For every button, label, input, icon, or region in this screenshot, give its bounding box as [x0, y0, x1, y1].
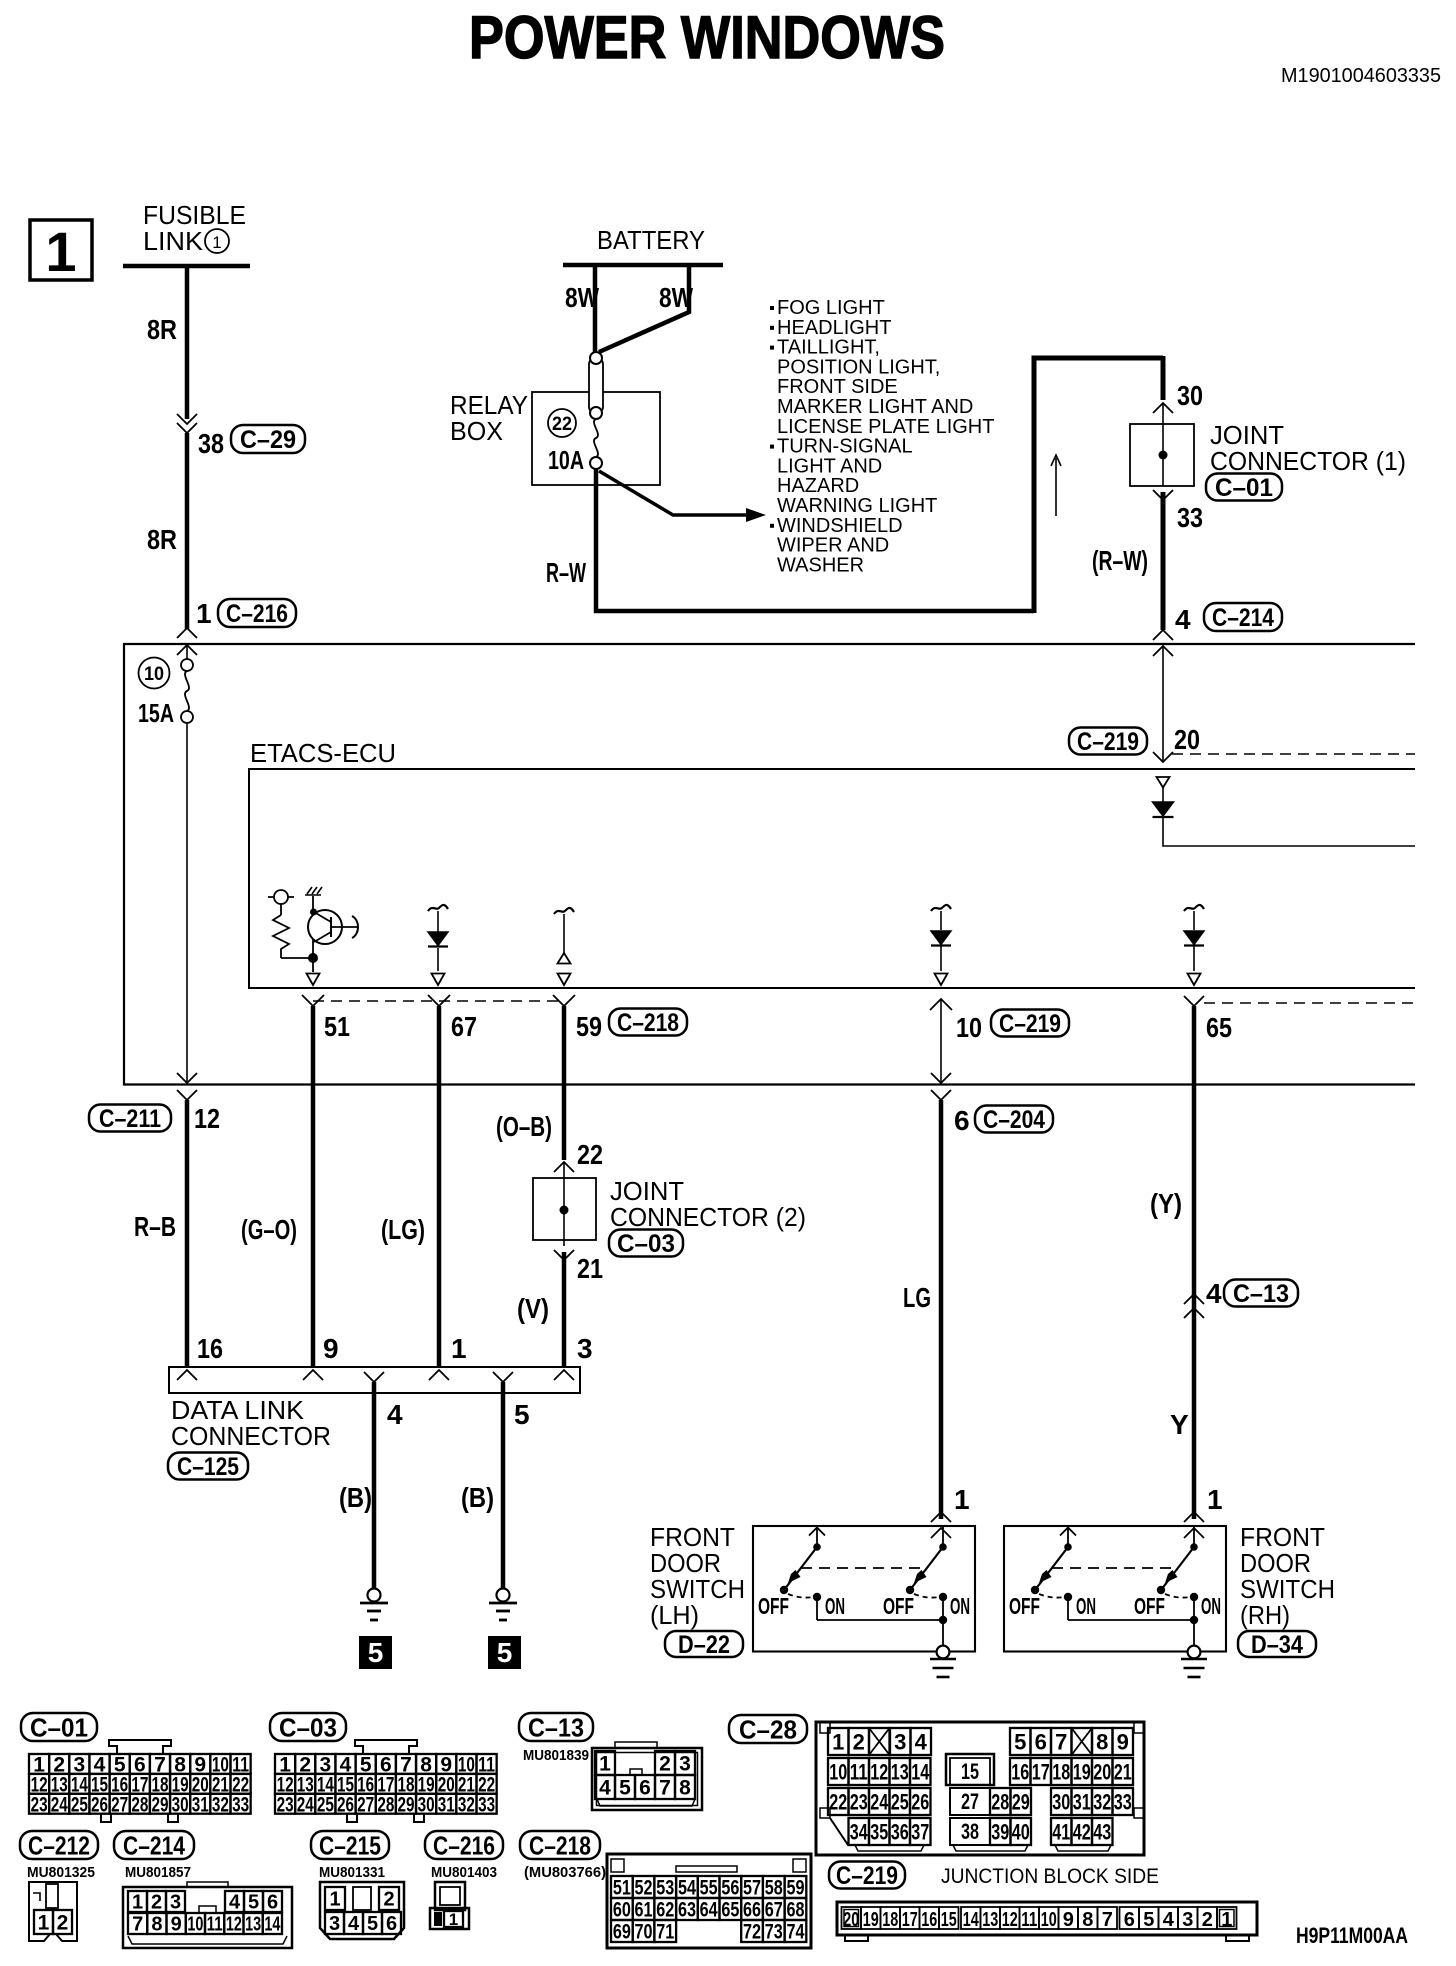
svg-text:(G–O): (G–O) [241, 1214, 297, 1245]
connector C-218 refbox [609, 1009, 687, 1036]
svg-text:23: 23 [850, 1789, 868, 1814]
svg-text:FOG LIGHT: FOG LIGHT [777, 297, 885, 319]
battery wire 8W left [593, 265, 598, 352]
svg-text:14: 14 [264, 1914, 281, 1936]
svg-text:C–214: C–214 [1212, 604, 1274, 632]
svg-text:C–28: C–28 [739, 1714, 797, 1744]
svg-text:8R: 8R [147, 524, 177, 555]
svg-text:OFF: OFF [1009, 1593, 1040, 1619]
svg-text:11: 11 [850, 1759, 868, 1784]
svg-text:52: 52 [635, 1877, 653, 1900]
svg-text:9: 9 [171, 1914, 182, 1936]
svg-text:4: 4 [1206, 1278, 1222, 1309]
svg-text:30: 30 [1052, 1789, 1070, 1814]
svg-text:3: 3 [329, 1913, 340, 1935]
front door switch RH box [1004, 1526, 1226, 1652]
svg-text:25: 25 [317, 1793, 334, 1816]
svg-text:LIGHT AND: LIGHT AND [777, 455, 882, 477]
svg-text:22: 22 [552, 414, 572, 435]
svg-text:POWER WINDOWS: POWER WINDOWS [469, 4, 945, 71]
svg-text:63: 63 [678, 1899, 696, 1922]
svg-text:16: 16 [1011, 1759, 1029, 1784]
svg-text:MU801325: MU801325 [27, 1864, 95, 1881]
svg-text:1: 1 [449, 1910, 458, 1929]
svg-text:2: 2 [1202, 1909, 1213, 1931]
svg-text:12: 12 [226, 1914, 242, 1936]
svg-text:20: 20 [1174, 724, 1200, 755]
svg-text:64: 64 [700, 1899, 718, 1922]
connector C-214 refbox [1204, 603, 1282, 631]
svg-text:38: 38 [198, 428, 224, 459]
svg-text:56: 56 [721, 1877, 739, 1900]
svg-text:5: 5 [248, 1892, 259, 1914]
wire LG to door switch LH [939, 1100, 944, 1519]
svg-text:16: 16 [197, 1333, 223, 1364]
svg-text:6: 6 [639, 1777, 651, 1800]
svg-text:35: 35 [870, 1819, 888, 1844]
svg-text:3: 3 [679, 1753, 691, 1776]
connector C-216 refbox [218, 599, 296, 627]
svg-text:BATTERY: BATTERY [597, 225, 705, 255]
wire O-B upper [562, 1006, 567, 1160]
svg-text:33: 33 [1177, 502, 1203, 533]
svg-text:C–212: C–212 [28, 1830, 90, 1860]
connector C-219 refbox bottom [829, 1862, 905, 1889]
svg-text:17: 17 [1032, 1759, 1050, 1784]
svg-text:51: 51 [613, 1877, 631, 1900]
chevron pair at junction block top right [1153, 630, 1173, 640]
connector C-215 pinout [320, 1882, 404, 1939]
connector C-212 refbox [20, 1831, 98, 1859]
svg-text:10A: 10A [548, 445, 584, 475]
svg-text:ON: ON [950, 1593, 970, 1619]
battery wire 8W right [599, 265, 689, 352]
svg-text:8: 8 [1082, 1909, 1093, 1931]
relay box [532, 392, 660, 485]
svg-text:58: 58 [765, 1877, 783, 1900]
connector C-01 pinout [109, 1740, 171, 1754]
svg-text:D–22: D–22 [678, 1631, 730, 1659]
battery bus bar [563, 263, 723, 268]
svg-text:WASHER: WASHER [777, 554, 864, 576]
svg-text:29: 29 [1012, 1789, 1030, 1814]
svg-text:30: 30 [418, 1793, 435, 1816]
svg-text:HAZARD: HAZARD [777, 475, 859, 497]
connector C-218 refbox2 [520, 1831, 600, 1859]
svg-text:H9P11M00AA: H9P11M00AA [1296, 1923, 1408, 1948]
svg-text:65: 65 [721, 1899, 739, 1922]
svg-text:23: 23 [31, 1793, 48, 1816]
connector D-34 refbox [1238, 1631, 1316, 1657]
svg-text:31: 31 [1073, 1789, 1091, 1814]
connector C-216 pinout [435, 1882, 465, 1910]
svg-text:BOX: BOX [450, 416, 503, 446]
svg-text:20: 20 [1093, 1759, 1111, 1784]
svg-text:1: 1 [451, 1333, 467, 1364]
svg-text:28: 28 [131, 1793, 148, 1816]
svg-text:4: 4 [348, 1913, 360, 1935]
svg-text:27: 27 [357, 1793, 374, 1816]
svg-text:11: 11 [1021, 1909, 1037, 1931]
svg-text:(R–W): (R–W) [1092, 545, 1148, 576]
svg-text:5: 5 [619, 1777, 631, 1800]
svg-text:C–13: C–13 [1233, 1280, 1289, 1308]
svg-text:7: 7 [659, 1777, 671, 1800]
svg-text:31: 31 [192, 1793, 209, 1816]
connector C-28 pinout [816, 1722, 1144, 1855]
ground symbol right [497, 1589, 510, 1602]
svg-text:33: 33 [1114, 1789, 1132, 1814]
svg-text:C–215: C–215 [319, 1830, 381, 1860]
wire 8R lower [185, 433, 190, 629]
svg-text:R–W: R–W [546, 557, 586, 588]
diode at pin 65 inside ETACS [1184, 905, 1204, 911]
svg-text:3: 3 [894, 1729, 906, 1754]
fuse 10 15A [186, 644, 188, 660]
svg-text:6: 6 [954, 1105, 970, 1136]
svg-text:2: 2 [151, 1892, 162, 1914]
svg-text:(LH): (LH) [650, 1600, 699, 1630]
wire LG to DLC [437, 1006, 442, 1367]
connector C-01 refbox bottom [21, 1713, 97, 1741]
svg-text:TURN-SIGNAL: TURN-SIGNAL [777, 436, 913, 458]
svg-text:C–211: C–211 [99, 1105, 161, 1133]
svg-text:13: 13 [891, 1759, 909, 1784]
svg-text:18: 18 [882, 1909, 898, 1931]
connector D-22 refbox [665, 1631, 743, 1657]
svg-text:1: 1 [196, 598, 212, 629]
svg-text:1: 1 [212, 233, 221, 252]
svg-text:10: 10 [1041, 1909, 1057, 1931]
svg-text:M1901004603335: M1901004603335 [1281, 65, 1441, 87]
C-28 row 3 cells [828, 1788, 849, 1815]
transistor circuit inside ETACS [268, 896, 294, 898]
connector C-216 refbox2 [425, 1831, 503, 1859]
svg-text:FRONT SIDE: FRONT SIDE [777, 376, 898, 398]
svg-text:C–216: C–216 [433, 1830, 495, 1860]
svg-text:55: 55 [700, 1877, 718, 1900]
ground symbol left [368, 1589, 381, 1602]
C-28 bottom left diagonal [830, 1818, 848, 1845]
page reference 5 right [488, 1636, 521, 1669]
svg-text:POSITION LIGHT,: POSITION LIGHT, [777, 356, 940, 378]
svg-text:29: 29 [397, 1793, 414, 1816]
svg-text:32: 32 [1093, 1789, 1111, 1814]
svg-text:1: 1 [1221, 1909, 1232, 1931]
svg-text:LINK: LINK [143, 226, 204, 256]
svg-text:12: 12 [194, 1103, 220, 1134]
svg-text:10: 10 [956, 1012, 982, 1043]
connector C-13 refbox bottom [519, 1713, 593, 1741]
svg-text:32: 32 [458, 1793, 475, 1816]
svg-text:67: 67 [765, 1899, 783, 1922]
svg-text:39: 39 [991, 1819, 1009, 1844]
svg-text:1: 1 [329, 1889, 340, 1911]
svg-text:(MU803766): (MU803766) [524, 1864, 606, 1881]
diode at pin 10 inside ETACS [931, 905, 951, 911]
connector C-214 pinout [123, 1887, 292, 1948]
svg-text:8W: 8W [659, 282, 693, 313]
svg-text:C–13: C–13 [528, 1712, 584, 1742]
svg-text:31: 31 [438, 1793, 455, 1816]
svg-text:6: 6 [1035, 1729, 1047, 1754]
wire (R-W) down [1161, 492, 1166, 630]
svg-text:6: 6 [267, 1892, 278, 1914]
svg-text:ON: ON [1201, 1593, 1221, 1619]
fusible link capsule [589, 358, 603, 413]
connector symbol at pin 59 inside ETACS [554, 908, 574, 914]
svg-text:51: 51 [324, 1011, 350, 1042]
svg-text:21: 21 [577, 1253, 603, 1284]
svg-text:9: 9 [1063, 1909, 1074, 1931]
joint connector 2 box [533, 1178, 596, 1240]
svg-text:D–34: D–34 [1251, 1631, 1303, 1659]
svg-text:74: 74 [786, 1921, 804, 1944]
svg-text:5: 5 [1143, 1909, 1154, 1931]
front door switch LH box [753, 1526, 975, 1652]
dashed line under ETACS pins [313, 1000, 564, 1002]
ground wire B left [372, 1382, 377, 1589]
svg-text:24: 24 [870, 1789, 889, 1814]
svg-text:OFF: OFF [758, 1593, 789, 1619]
diode at pin 20 inside ETACS [1157, 777, 1170, 788]
svg-text:70: 70 [635, 1921, 653, 1944]
svg-text:Y: Y [1170, 1409, 1189, 1440]
connector C-03 refbox [609, 1230, 683, 1257]
connector C-218 pinout [607, 1854, 811, 1948]
svg-text:59: 59 [576, 1011, 602, 1042]
svg-text:MU801839: MU801839 [523, 1747, 589, 1764]
data link connector bar [169, 1367, 580, 1393]
connector C-219 refbox mid [991, 1010, 1069, 1037]
chevron at C-219 pin 20 [1153, 752, 1173, 762]
svg-text:CONNECTOR (1): CONNECTOR (1) [1210, 446, 1406, 476]
svg-text:1: 1 [1207, 1484, 1223, 1515]
svg-text:MU801331: MU801331 [319, 1864, 385, 1881]
connector C-211 refbox [89, 1105, 171, 1132]
svg-text:22: 22 [829, 1789, 847, 1814]
svg-text:1: 1 [599, 1753, 611, 1776]
svg-text:68: 68 [786, 1899, 804, 1922]
connector C-03 pinout [355, 1740, 417, 1754]
svg-text:30: 30 [172, 1793, 189, 1816]
svg-text:71: 71 [656, 1921, 674, 1944]
chevron above joint connector 1 [1153, 403, 1173, 413]
svg-text:21: 21 [1114, 1759, 1132, 1784]
page reference 5 left [359, 1636, 392, 1669]
svg-text:57: 57 [743, 1877, 761, 1900]
svg-text:6: 6 [1124, 1909, 1135, 1931]
svg-text:17: 17 [902, 1909, 918, 1931]
svg-text:25: 25 [71, 1793, 88, 1816]
svg-text:23: 23 [277, 1793, 294, 1816]
svg-text:15: 15 [941, 1909, 957, 1931]
svg-text:33: 33 [478, 1793, 495, 1816]
wire R-B [185, 1100, 190, 1367]
svg-text:8R: 8R [147, 314, 177, 345]
svg-text:16: 16 [921, 1909, 937, 1931]
svg-text:59: 59 [786, 1877, 804, 1900]
svg-text:MARKER LIGHT AND: MARKER LIGHT AND [777, 396, 973, 418]
svg-text:(O–B): (O–B) [496, 1111, 552, 1142]
svg-text:18: 18 [1052, 1759, 1070, 1784]
connector C-28 refbox bottom [729, 1715, 807, 1743]
svg-text:24: 24 [51, 1793, 68, 1816]
svg-text:34: 34 [850, 1819, 869, 1844]
connector C-219 refbox top [1069, 728, 1147, 755]
dashed line at C-219 20 [1172, 753, 1415, 755]
joint connector 1 box [1130, 424, 1194, 486]
svg-text:29: 29 [151, 1793, 168, 1816]
svg-text:25: 25 [891, 1789, 909, 1814]
chevrons into switch RH [1184, 1512, 1204, 1522]
svg-text:C–214: C–214 [123, 1830, 185, 1860]
svg-text:C–219: C–219 [999, 1010, 1061, 1038]
svg-text:WIPER AND: WIPER AND [777, 535, 889, 557]
svg-text:14: 14 [963, 1909, 980, 1931]
svg-text:28: 28 [377, 1793, 394, 1816]
svg-text:54: 54 [678, 1877, 696, 1900]
svg-text:1: 1 [45, 220, 76, 283]
svg-text:7: 7 [132, 1914, 143, 1936]
svg-text:11: 11 [207, 1914, 223, 1936]
svg-text:5: 5 [368, 1637, 384, 1668]
chevrons into switch LH [931, 1512, 951, 1522]
svg-text:JUNCTION BLOCK SIDE: JUNCTION BLOCK SIDE [941, 1865, 1159, 1888]
svg-text:C–125: C–125 [177, 1453, 239, 1481]
svg-text:2: 2 [659, 1753, 671, 1776]
svg-text:9: 9 [323, 1333, 339, 1364]
chevron below joint connector 2 [554, 1250, 574, 1260]
svg-text:4: 4 [229, 1892, 241, 1914]
svg-text:WARNING LIGHT: WARNING LIGHT [777, 495, 937, 517]
arrow to load list [599, 471, 746, 515]
connector C-214 refbox2 [114, 1831, 194, 1859]
fusible link bus bar [123, 264, 250, 269]
svg-text:ON: ON [825, 1593, 845, 1619]
svg-text:12: 12 [1002, 1909, 1018, 1931]
svg-text:1: 1 [954, 1484, 970, 1515]
svg-text:C–29: C–29 [240, 426, 296, 454]
svg-text:38: 38 [961, 1819, 979, 1844]
svg-text:(B): (B) [339, 1482, 372, 1513]
svg-text:22: 22 [577, 1139, 603, 1170]
connector C-29 [231, 425, 305, 453]
svg-text:(Y): (Y) [1150, 1188, 1182, 1219]
connector C-218 pins 51 67 59 [302, 995, 324, 1006]
ETACS-ECU box [249, 769, 1415, 988]
svg-text:67: 67 [451, 1011, 477, 1042]
svg-text:(RH): (RH) [1240, 1600, 1290, 1630]
svg-text:19: 19 [1073, 1759, 1091, 1784]
connector C-215 refbox [311, 1831, 389, 1859]
page reference box 1 [30, 220, 92, 280]
svg-text:37: 37 [911, 1819, 929, 1844]
svg-text:4: 4 [387, 1399, 403, 1430]
chevron above joint connector 2 [554, 1162, 574, 1172]
svg-text:8: 8 [1096, 1729, 1108, 1754]
svg-text:13: 13 [982, 1909, 998, 1931]
thin up arrow [1055, 458, 1057, 516]
svg-text:2: 2 [57, 1912, 69, 1935]
svg-text:36: 36 [891, 1819, 909, 1844]
svg-text:10: 10 [144, 664, 164, 685]
svg-text:26: 26 [911, 1789, 929, 1814]
chevron below junction block left [177, 1090, 197, 1100]
connector C-125 refbox [168, 1453, 248, 1480]
svg-text:HEADLIGHT: HEADLIGHT [777, 317, 891, 339]
svg-text:32: 32 [212, 1793, 229, 1816]
wire 65 start [1184, 996, 1204, 1006]
svg-text:3: 3 [1182, 1909, 1193, 1931]
chevron below joint connector 1 [1153, 490, 1173, 500]
svg-text:ETACS-ECU: ETACS-ECU [250, 738, 396, 768]
svg-text:5: 5 [497, 1637, 513, 1668]
svg-text:6: 6 [386, 1913, 397, 1935]
svg-text:72: 72 [743, 1921, 761, 1944]
svg-text:1: 1 [132, 1892, 143, 1914]
svg-text:C–204: C–204 [983, 1106, 1045, 1134]
chevron into junction block [177, 628, 197, 638]
connector C-13 pinout [592, 1748, 702, 1810]
svg-text:(V): (V) [517, 1293, 549, 1324]
chevrons at C-13 crossing [1184, 1294, 1204, 1304]
svg-text:R–B: R–B [134, 1211, 176, 1242]
wire 8R upper [185, 266, 190, 419]
svg-text:C–219: C–219 [836, 1862, 898, 1890]
dashed line at 65 [1204, 1002, 1415, 1004]
svg-text:C–218: C–218 [529, 1830, 591, 1860]
svg-text:MU801857: MU801857 [125, 1864, 191, 1881]
svg-text:28: 28 [991, 1789, 1009, 1814]
svg-text:1: 1 [38, 1912, 50, 1935]
svg-text:LG: LG [903, 1282, 931, 1313]
C-28 row 4 cells [849, 1818, 870, 1845]
wire R-W run to joint connector [596, 469, 1034, 611]
wire G-O [311, 1006, 316, 1367]
svg-text:24: 24 [297, 1793, 314, 1816]
svg-text:5: 5 [514, 1399, 530, 1430]
svg-text:41: 41 [1052, 1819, 1070, 1844]
svg-text:CONNECTOR: CONNECTOR [171, 1421, 331, 1451]
svg-text:4: 4 [1163, 1909, 1175, 1931]
svg-text:4: 4 [915, 1729, 928, 1754]
svg-text:53: 53 [656, 1877, 674, 1900]
C-28 row 1 cells [828, 1728, 849, 1755]
svg-text:27: 27 [111, 1793, 128, 1816]
svg-text:4: 4 [1175, 604, 1191, 635]
svg-text:OFF: OFF [1134, 1593, 1165, 1619]
svg-text:C–01: C–01 [1215, 474, 1273, 502]
svg-text:MU801403: MU801403 [431, 1864, 497, 1881]
svg-text:10: 10 [187, 1914, 203, 1936]
svg-text:4: 4 [599, 1777, 611, 1800]
junction block box [124, 644, 1415, 1085]
svg-text:3: 3 [170, 1892, 181, 1914]
svg-text:WINDSHIELD: WINDSHIELD [777, 515, 903, 537]
svg-text:27: 27 [961, 1789, 979, 1814]
connector C-29 crossing chevrons [177, 414, 197, 424]
svg-text:26: 26 [91, 1793, 108, 1816]
fuse 22 circle [548, 409, 576, 437]
svg-text:LICENSE PLATE LIGHT: LICENSE PLATE LIGHT [777, 416, 994, 438]
svg-text:CONNECTOR (2): CONNECTOR (2) [610, 1202, 806, 1232]
svg-text:7: 7 [1102, 1909, 1113, 1931]
svg-text:8W: 8W [565, 282, 599, 313]
svg-text:8: 8 [151, 1914, 162, 1936]
svg-text:C–01: C–01 [30, 1712, 88, 1742]
svg-text:C–218: C–218 [617, 1009, 679, 1037]
